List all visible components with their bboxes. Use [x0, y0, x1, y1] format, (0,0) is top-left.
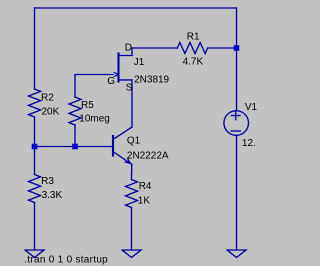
wire R2 bottom to base node	[34, 117, 36, 147]
svg-text:J1: J1	[134, 57, 145, 68]
svg-text:3.3K: 3.3K	[42, 190, 63, 201]
resistor R2	[29, 89, 41, 117]
svg-text:4.7K: 4.7K	[183, 57, 204, 68]
wire R5 bottom to base node	[74, 125, 76, 147]
svg-text:12.: 12.	[242, 138, 256, 149]
junction node base-R5	[72, 144, 78, 150]
ground middle	[122, 250, 141, 258]
wire R1 to right rail	[208, 47, 237, 49]
wire emitter to R4	[131, 165, 133, 180]
jfet J1 body	[114, 48, 132, 86]
wire left rail upper segment	[34, 8, 36, 89]
wire V1 bottom to ground	[236, 135, 238, 250]
svg-text:.tran 0 1 0 startup: .tran 0 1 0 startup	[24, 255, 108, 266]
svg-text:20K: 20K	[42, 107, 60, 118]
wire base row	[35, 146, 113, 148]
svg-text:2N2222A: 2N2222A	[127, 150, 169, 161]
svg-text:R3: R3	[41, 176, 54, 187]
svg-text:G: G	[107, 76, 115, 87]
transistor Q1	[113, 127, 132, 165]
wire top rail	[35, 7, 237, 9]
resistor R4	[126, 180, 138, 208]
wire drain to R1	[132, 47, 177, 49]
wire source to collector	[131, 86, 133, 127]
ground right	[227, 250, 246, 258]
resistor R3	[29, 175, 41, 203]
svg-text:Q1: Q1	[127, 136, 141, 147]
wire right rail upper	[236, 8, 238, 111]
wire R4 bottom to ground	[131, 208, 133, 251]
wire R5 top corner to gate row	[75, 75, 113, 98]
resistor R5	[69, 97, 81, 125]
svg-text:R5: R5	[81, 100, 94, 111]
svg-text:R2: R2	[41, 93, 54, 104]
wire node to R3 top	[34, 147, 36, 175]
svg-text:R1: R1	[187, 32, 200, 43]
svg-text:D: D	[125, 43, 132, 54]
ground left	[25, 250, 44, 258]
resistor R1	[177, 43, 207, 54]
junction node base-R2	[32, 144, 38, 150]
wire R3 bottom to ground	[34, 203, 36, 251]
voltage source V1	[224, 111, 249, 136]
svg-text:R4: R4	[139, 181, 152, 192]
svg-text:S: S	[126, 83, 133, 94]
svg-text:10meg: 10meg	[79, 114, 110, 125]
svg-text:V1: V1	[245, 102, 258, 113]
junction node R1-V1	[234, 45, 240, 51]
svg-text:2N3819: 2N3819	[134, 75, 169, 86]
svg-text:1K: 1K	[138, 196, 151, 207]
